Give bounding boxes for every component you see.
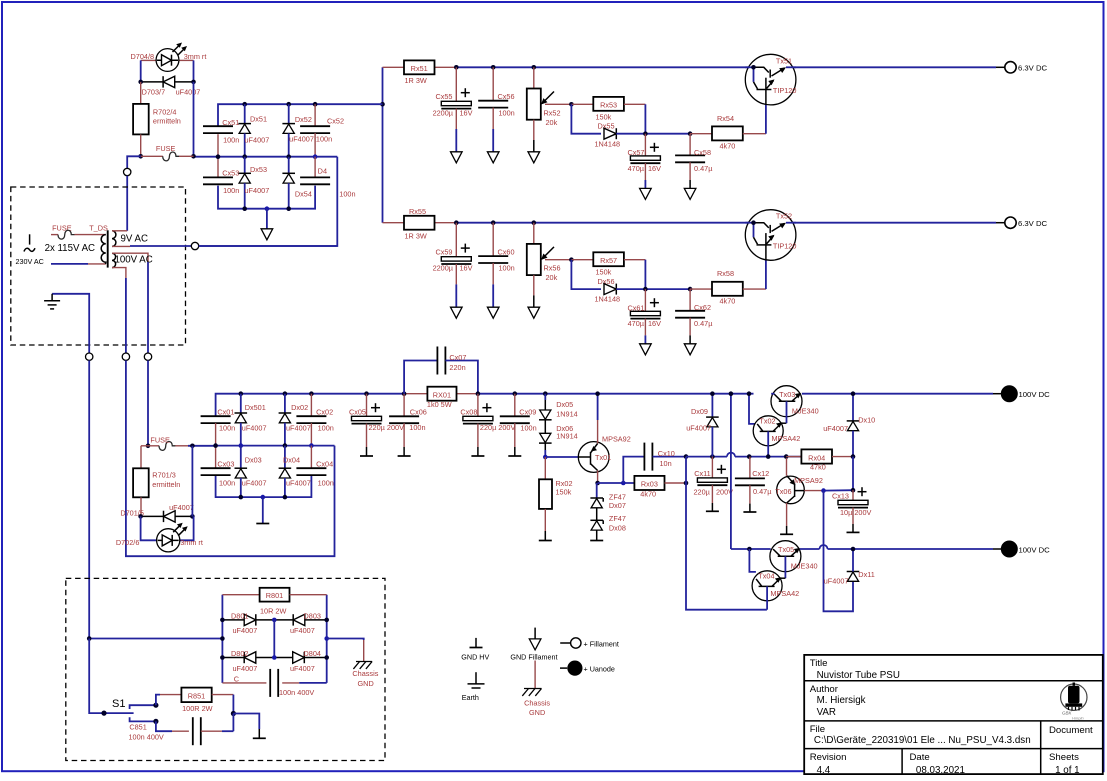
diode Dx06 1N914 [544,420,546,434]
svg-text:Dx10: Dx10 [858,415,875,424]
svg-text:1R 3W: 1R 3W [405,76,427,85]
wire bottom rail right of Tx05 [800,548,820,550]
wire Tx04 base down to drive return [766,586,768,609]
capacitor Cx07 220n bypass [404,361,437,394]
svg-text:Chassis: Chassis [352,669,378,678]
wire Dx56 branch [571,260,601,289]
node Rx53/Dx55 tap [569,102,574,107]
wire bridge middle rail [194,156,338,158]
svg-text:VAR: VAR [817,707,836,718]
ground triangle bridge1 [261,229,273,240]
node Cx05 [364,391,369,396]
svg-text:FUSE: FUSE [150,435,170,444]
svg-text:20k: 20k [546,273,558,282]
node Rx57/Dx56 tap [569,257,574,262]
svg-text:Rx53: Rx53 [600,101,617,110]
svg-text:Cx55: Cx55 [435,92,452,101]
svg-text:uF4007: uF4007 [286,479,311,488]
diode D803 uF4007 [274,619,326,621]
svg-text:100n: 100n [219,424,235,433]
svg-text:16V: 16V [460,108,473,117]
legend Earth [462,672,485,702]
wire R851 right down [232,695,234,714]
wire 100V main rail mid part [457,393,478,395]
svg-text:Chassis: Chassis [524,698,550,707]
node bridge bottom d2 [286,206,291,211]
node fuse row right [191,154,196,159]
resistor Rx53 150k [571,103,593,105]
svg-text:Revision: Revision [810,752,847,763]
node fuse row transformer drop [146,444,151,449]
diode Dx10 uF4007 [852,394,854,421]
node Tx04 collector riser [747,547,752,552]
diode D802 uF4007 [222,657,274,659]
svg-text:100n: 100n [339,190,355,199]
svg-text:+ Fillament: + Fillament [584,640,619,649]
svg-text:Cx12: Cx12 [752,469,769,478]
node D703 right [191,80,196,85]
svg-text:T_DS: T_DS [89,223,108,232]
svg-text:4k70: 4k70 [720,141,736,150]
diode Dx56 1N4148 [604,284,616,295]
wire long feed to bridge left [89,638,222,640]
wire D-bridge left vertical [221,595,223,683]
terminal circle 100V bottom [122,353,129,360]
svg-text:20k: 20k [546,118,558,127]
svg-text:R851: R851 [188,691,205,700]
svg-text:Dx05: Dx05 [556,400,573,409]
node D701 right [190,514,195,519]
wire Rx57 output down [644,260,646,289]
resistor Rx51 [435,66,457,68]
wire bridge center vertical [273,620,275,658]
svg-text:Cx04: Cx04 [316,460,333,469]
potentiometer Rx56 20k [533,223,535,244]
svg-text:Cx01: Cx01 [217,408,234,417]
wire 9V top tap [112,230,127,232]
legend + Uanode [560,661,615,676]
legend + Fillament [560,638,619,649]
wire Tx05 base to Tx04 emitter [784,556,786,578]
diode Dx52 uF4007 [286,102,291,107]
svg-text:Cx03: Cx03 [217,460,234,469]
svg-text:C851: C851 [129,723,146,732]
resistor Rx55 [435,222,457,224]
svg-text:uF4007: uF4007 [233,626,258,635]
node junction bridge rail / Rx51 feed [380,102,385,107]
resistor Rx57 150k [571,259,593,261]
ground triangle under Cx62 [684,344,696,355]
diode Dx54 (D4) uF4007 [286,154,291,159]
svg-text:16V: 16V [648,164,661,173]
svg-text:470µ: 470µ [628,319,645,328]
node bridge2 bottom d2 [283,495,288,500]
ground triangle under Cx60 [487,307,499,318]
wire Dx11 feedback loop [824,491,854,612]
svg-text:Cx52: Cx52 [327,117,344,126]
svg-text:R701/3: R701/3 [152,470,176,479]
wire Tx01 emitter up [597,420,599,444]
svg-text:D804: D804 [304,649,321,658]
svg-text:Tx06: Tx06 [775,487,791,496]
svg-text:Tx04: Tx04 [758,572,774,581]
svg-text:100n 400V: 100n 400V [129,732,164,741]
resistor R801 10R 2W [222,594,259,596]
node Cx60 [491,220,496,225]
capacitor Cx04 100n [309,443,314,448]
switch S1 [89,639,133,714]
svg-text:100V AC: 100V AC [115,255,153,266]
svg-text:100n: 100n [520,424,536,433]
capacitor C851 100n 400V [156,721,172,731]
svg-text:uF4007: uF4007 [242,479,267,488]
svg-text:0.47µ: 0.47µ [753,487,772,496]
capacitor Cx61 470u 16V [644,289,646,311]
wire primary bottom [51,263,88,265]
legend GND Fillament [510,628,557,662]
capacitor Cx53 100n [217,157,219,178]
svg-text:S1: S1 [112,698,125,710]
svg-text:D802: D802 [231,649,248,658]
terminal circle earth/common [86,353,93,360]
diode D804 uF4007 [274,657,326,659]
svg-text:Tx03: Tx03 [779,390,795,399]
svg-text:Cx62: Cx62 [694,303,711,312]
wire fuse row to 9V terminal [127,156,141,168]
diode Dx53 uF4007 [242,154,247,159]
diode Dx55 1N4148 [604,128,616,139]
svg-text:Rx03: Rx03 [641,480,658,489]
svg-text:Dx09: Dx09 [691,407,708,416]
capacitor Cx01 100n [201,416,231,423]
svg-text:6.3V DC: 6.3V DC [1018,63,1048,72]
svg-text:100R 2W: 100R 2W [182,704,213,713]
svg-text:GND Fillament: GND Fillament [510,652,557,661]
ground triangle under Cx61 [640,344,652,355]
svg-text:uF4007: uF4007 [290,664,315,673]
svg-text:Dx08: Dx08 [609,524,626,533]
svg-text:uF4007: uF4007 [823,424,848,433]
wire Tx02 collector to rail [749,394,755,424]
svg-text:2200µ: 2200µ [433,264,454,273]
svg-text:uF4007: uF4007 [242,424,267,433]
svg-text:150k: 150k [596,268,612,277]
terminal circle 9V top [124,168,131,175]
diode Dx05 1N914 [544,394,546,400]
svg-text:Sheets: Sheets [1049,752,1079,763]
node Cx59 [454,220,459,225]
svg-text:9V AC: 9V AC [121,234,148,245]
svg-text:4k70: 4k70 [720,297,736,306]
svg-text:D702/6: D702/6 [116,538,140,547]
fuse FUSE row1 [141,155,163,157]
wire hop over vertical at x824 [820,545,828,549]
terminal 6.3V DC row1 [1005,62,1016,73]
svg-text:Rx51: Rx51 [411,64,428,73]
node bridge center top [272,618,277,623]
transformer T_DS windings [101,230,116,267]
wire base stub to Tx01 [545,456,578,458]
logo nuvistor tube [1061,683,1087,721]
potentiometer Rx52 20k [533,67,535,88]
svg-text:FUSE: FUSE [156,144,176,153]
transistor Tx03 MJE340 [771,386,819,417]
svg-text:Cx13: Cx13 [832,491,849,500]
svg-text:R702/4: R702/4 [153,108,177,117]
node Cx58 [688,131,693,136]
svg-text:MJE340: MJE340 [791,562,818,571]
svg-text:Cx09: Cx09 [519,408,536,417]
node Rx04 left / Tx06 emitter [784,454,789,459]
node Cx13 top [851,488,856,493]
node D701 left [138,514,143,519]
svg-text:uF4007: uF4007 [290,626,315,635]
svg-text:100n: 100n [318,424,334,433]
svg-text:+ Uanode: + Uanode [584,665,615,674]
svg-text:Cx06: Cx06 [410,407,427,416]
svg-text:D703/7: D703/7 [142,88,166,97]
svg-text:1N914: 1N914 [556,410,578,419]
diode Dx11 uF4007 [847,572,860,582]
earth symbol [44,294,60,309]
svg-text:Title: Title [810,658,828,669]
svg-text:C:\D\Geräte_220319\01 Ele ...: C:\D\Geräte_220319\01 Ele ... Nu_PSU_V4.… [814,735,1031,746]
svg-text:TIP120: TIP120 [773,241,797,250]
svg-text:Hmpln: Hmpln [1072,716,1084,721]
svg-text:100n: 100n [499,264,515,273]
wire Tx06 emitter up to node [786,458,788,476]
terminal circle 100V top [144,353,151,360]
svg-text:Rx56: Rx56 [544,264,561,273]
svg-text:RX01: RX01 [433,390,451,399]
svg-text:D803: D803 [304,611,321,620]
wire 100V top tap [112,253,148,262]
svg-text:1N914: 1N914 [556,432,578,441]
node Cx56 [491,65,496,70]
svg-text:Dx52: Dx52 [295,115,312,124]
wire Tx02 base down to second rail [767,431,769,456]
node Rx03 left / Cx10 drop [621,481,626,486]
capacitor Cx54 100n [313,154,318,159]
svg-text:Dx07: Dx07 [609,501,626,510]
node Rx56 [532,220,537,225]
svg-text:TIP120: TIP120 [773,86,797,95]
transistor Tx06 MPSA92 [775,476,823,504]
svg-text:1 of 1: 1 of 1 [1055,765,1080,776]
node Cx12 [747,454,752,459]
svg-text:Author: Author [810,684,839,695]
resistor Rx04 47k0 [786,456,801,458]
wire D703 right to fuse row [193,82,195,156]
wire 100V bridge bottom rail [216,475,312,497]
svg-text:GND: GND [358,679,374,688]
node 100V bridge mid c1 [213,443,218,448]
capacitor Cx59 2200u 16V [455,223,457,257]
svg-text:Tx02: Tx02 [759,417,775,426]
svg-text:Dx11: Dx11 [858,570,875,579]
wire 100V bridge middle rail [216,445,335,447]
svg-text:ZF47: ZF47 [609,514,626,523]
wire left vertical feeding Rx51/Rx55 [382,67,384,222]
node Cx57 [643,131,648,136]
wire Tx01 collector to Rx03 [598,482,635,484]
diode Dx51 uF4007 [242,102,247,107]
ground triangle under Cx57 [640,188,652,199]
node bridge bottom d1 [242,206,247,211]
diode D701/5 uF4007 [120,503,193,522]
wire bridge2 gnd stub [262,497,264,523]
svg-text:Cx59: Cx59 [435,247,452,256]
svg-text:6.3V DC: 6.3V DC [1018,219,1048,228]
transistor Tx51 TIP120 [745,54,796,105]
wire Tx01 collector down [597,471,599,484]
wire junction to ground [233,714,259,730]
resistor R701/3 ermitteln [140,446,142,469]
svg-text:Cx58: Cx58 [694,148,711,157]
svg-text:Dx02: Dx02 [291,403,308,412]
transistor Tx01 MPSA92 [578,434,630,472]
svg-text:GND: GND [529,708,545,717]
ground triangle under Cx56 [487,152,499,163]
wire LED right drop [193,60,195,82]
svg-text:Dx03: Dx03 [245,455,262,464]
svg-text:0.47µ: 0.47µ [694,319,713,328]
dashed enclosure transformer [11,187,186,345]
LED D702/6 3mm rt [116,516,203,552]
wire rail row2 left of Tx52 [456,222,753,224]
svg-text:220µ: 220µ [694,488,711,497]
capacitor Cx12 0.47u [749,457,751,479]
svg-text:Cx10: Cx10 [658,449,675,458]
fuse FUSE 100V [141,445,159,447]
node fuse right [190,444,195,449]
svg-text:10R 2W: 10R 2W [260,606,286,615]
svg-text:ermitteln: ermitteln [153,117,181,126]
node Tx06 base / Dx11 loop [821,488,826,493]
wire Tx06 collector down to ground [786,503,788,526]
svg-text:100V DC: 100V DC [1019,390,1051,399]
node Dx06 bottom / Tx01 base [543,455,548,460]
svg-text:Cx56: Cx56 [498,92,515,101]
wire second rail segment to Dx09 [686,456,727,458]
svg-text:Dx501: Dx501 [245,403,266,412]
svg-text:uF4007: uF4007 [686,423,711,432]
svg-text:uF4007: uF4007 [176,88,201,97]
svg-text:470µ: 470µ [628,164,645,173]
chassis GND symbol bridge [353,662,372,669]
capacitor C 100n 400V [222,682,266,684]
svg-text:uF4007: uF4007 [169,503,194,512]
ground triangle under Rx52 [528,152,540,163]
wire 100V main rail left part [367,393,405,395]
diode Dx02 uF4007 [283,391,288,396]
mains plug symbol [24,234,35,251]
svg-text:10n: 10n [660,459,672,468]
wire rail row1 left of Tx51 [456,66,753,68]
capacitor Cx11 220u 200V [711,457,713,478]
svg-text:150k: 150k [556,488,572,497]
svg-text:MPSA92: MPSA92 [602,434,631,443]
svg-text:3mm rt: 3mm rt [180,538,203,547]
svg-text:Cx05: Cx05 [349,408,366,417]
wire fuse node down to D701 [191,446,193,517]
svg-text:100n: 100n [223,186,239,195]
ground triangle under Cx58 [684,188,696,199]
node Cx09 [513,391,518,396]
svg-text:Rx04: Rx04 [808,453,825,462]
svg-text:Tx51: Tx51 [776,56,792,65]
svg-text:Dx51: Dx51 [250,115,267,124]
wire bridge top rail [218,104,383,126]
wire Rx54 to Tx51 base [765,102,767,134]
svg-text:4.4: 4.4 [817,765,831,776]
node bridge right mid [324,636,329,641]
ground bar bridge2 [256,523,269,525]
svg-text:1R 3W: 1R 3W [405,231,427,240]
svg-text:uF4007: uF4007 [824,577,849,586]
earth wire [52,294,89,353]
svg-text:Cx57: Cx57 [627,148,644,157]
svg-text:File: File [810,724,825,735]
resistor R702/4 ermitteln [140,82,142,104]
wire Tx03 base to Tx02 emitter [786,401,788,423]
diode Dx501 uF4007 [239,391,244,396]
svg-text:3mm rt: 3mm rt [184,52,207,61]
wire chassis branch [327,639,364,641]
diode Dx04 uF4007 [283,443,288,448]
svg-text:Cx07: Cx07 [449,353,466,362]
svg-text:Dx53: Dx53 [250,165,267,174]
node bridge center bottom [272,655,277,660]
svg-text:Cx02: Cx02 [316,408,333,417]
svg-text:MPSA42: MPSA42 [772,434,801,443]
ground GND-filament triangle under Cx55 [451,152,463,163]
resistor R851 100R 2W [156,695,160,706]
terminal 6.3V DC row2 [1005,217,1016,228]
wire Dx55 branch [571,104,601,133]
node R851/C851 junction [231,711,236,716]
svg-text:Rx52: Rx52 [544,108,561,117]
legend GND HV [461,638,489,661]
node bridge left mid [220,636,225,641]
svg-text:10µ 200V: 10µ 200V [840,508,872,517]
svg-text:Cx53: Cx53 [222,169,239,178]
svg-text:Tx01: Tx01 [595,453,611,462]
svg-text:GBK: GBK [1062,711,1073,716]
wire 9V return drop [199,157,337,246]
node Dx09 bottom / Cx11 [710,454,715,459]
svg-text:Cx11: Cx11 [694,469,711,478]
capacitor Cx08 220u 200V [477,394,479,417]
zener ZF47 Dx08 [596,508,598,521]
svg-text:Tx05: Tx05 [778,545,794,554]
capacitor Cx51 100n [203,126,233,133]
svg-text:Rx58: Rx58 [717,269,734,278]
svg-text:Nuvistor Tube PSU: Nuvistor Tube PSU [817,670,900,681]
ground triangle under Rx56 [528,307,540,318]
svg-text:47k0: 47k0 [810,462,826,471]
node Dx05 top [543,391,548,396]
svg-text:D801: D801 [231,611,248,620]
terminal 100V DC lower [1001,541,1017,557]
capacitor Cx06 100n [403,394,405,417]
capacitor Cx56 100n [492,67,494,100]
svg-text:D704/8: D704/8 [131,52,155,61]
svg-text:Cx60: Cx60 [498,247,515,256]
wire 100V bridge top corner [216,394,367,417]
diode D703/7 uF4007 [142,76,201,96]
wire D-bridge right vertical [326,595,328,683]
